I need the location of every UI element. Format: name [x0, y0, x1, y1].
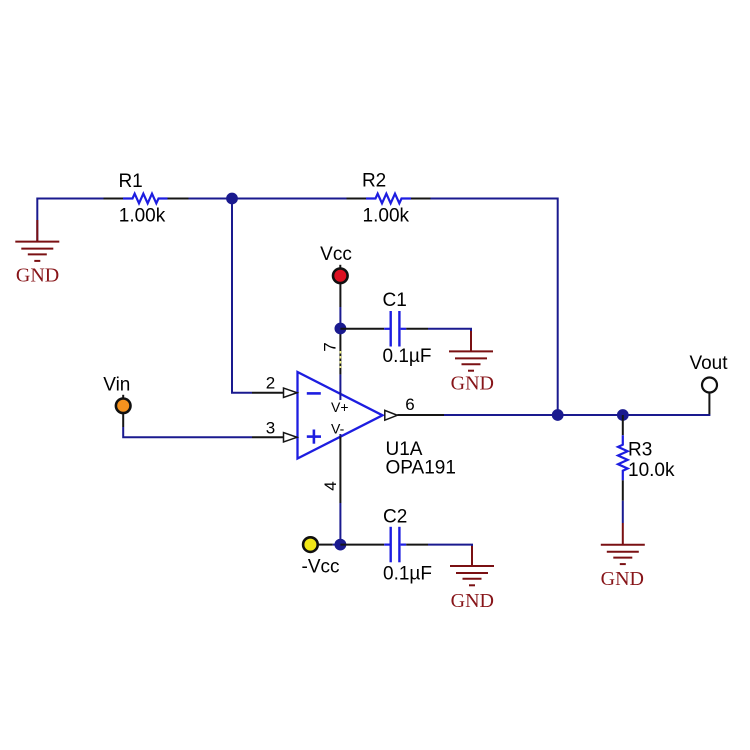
svg-text:R2: R2: [362, 170, 386, 191]
wire R3 to ground: [622, 501, 624, 523]
wire feedback right: [431, 199, 558, 416]
svg-text:3: 3: [266, 418, 275, 437]
op-amp U1A: [298, 372, 456, 479]
svg-text:OPA191: OPA191: [386, 458, 456, 479]
wire Vout down: [708, 394, 710, 415]
svg-text:C1: C1: [383, 290, 407, 311]
pin 3 arrow: [284, 433, 298, 442]
svg-text:1.00k: 1.00k: [363, 205, 410, 226]
svg-text:V-: V-: [331, 421, 345, 437]
svg-text:1.00k: 1.00k: [119, 205, 166, 226]
svg-text:GND: GND: [16, 264, 59, 286]
svg-text:GND: GND: [451, 590, 494, 612]
wire: [37, 199, 103, 242]
node junction Vcc/C1: [335, 323, 347, 335]
wire from Vin to pin 3: [122, 414, 124, 427]
svg-text:R3: R3: [628, 440, 652, 461]
node -Vcc: [302, 537, 340, 577]
wire Vcc down: [339, 284, 341, 307]
node Vout: [689, 353, 728, 393]
svg-text:Vcc: Vcc: [320, 244, 352, 265]
node junction feedback/output: [552, 409, 564, 421]
node junction R3/output: [617, 409, 629, 421]
svg-text:4: 4: [321, 481, 340, 490]
wire: [189, 198, 347, 200]
wire C1 to ground: [428, 329, 471, 334]
svg-text:2: 2: [266, 374, 275, 393]
pin 4: [339, 434, 341, 437]
capacitor C2: [340, 507, 432, 585]
capacitor C1: [340, 290, 431, 367]
svg-text:0.1µF: 0.1µF: [383, 346, 432, 367]
wire -Vcc to junction: [318, 544, 332, 546]
svg-text:C2: C2: [383, 507, 407, 528]
svg-text:V+: V+: [331, 399, 349, 415]
ground (R3): [601, 523, 645, 564]
svg-text:0.1µF: 0.1µF: [383, 564, 432, 585]
wire C2 to ground: [428, 545, 472, 548]
pin 7: [339, 331, 341, 375]
ground (C1): [449, 331, 493, 371]
wire inverting input: [232, 199, 252, 393]
svg-text:10.0k: 10.0k: [628, 460, 675, 481]
ground: [15, 220, 59, 261]
pin 2 arrow: [284, 388, 298, 397]
resistor R2: [347, 170, 431, 226]
ground (C2): [450, 546, 494, 585]
svg-text:GND: GND: [451, 373, 494, 395]
resistor R3: [618, 415, 675, 501]
node junction at R1/R2: [226, 193, 238, 205]
node junction -Vcc/C2: [335, 539, 347, 551]
svg-text:7: 7: [321, 342, 340, 351]
wire output: [397, 414, 444, 416]
pin 6 arrow: [385, 410, 398, 420]
node Vin: [103, 375, 130, 413]
svg-text:Vin: Vin: [103, 375, 130, 396]
svg-text:R1: R1: [118, 171, 142, 192]
svg-text:6: 6: [405, 395, 414, 414]
resistor R1: [104, 171, 189, 227]
svg-text:-Vcc: -Vcc: [302, 556, 340, 577]
svg-text:Vout: Vout: [689, 353, 728, 374]
svg-text:GND: GND: [601, 568, 644, 590]
node Vcc: [320, 244, 352, 283]
